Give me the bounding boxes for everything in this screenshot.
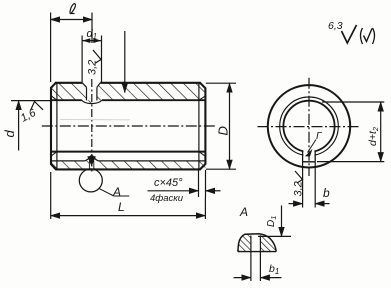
channel walls [250,236,252,282]
hatch top band [51,83,205,104]
svg-text:A: A [112,185,121,199]
keyway slot: white out [303,146,314,161]
keyway bottom line [51,160,85,162]
bore recess dome at hole (top wall) [82,100,102,103]
label l (length to hole axis) [70,4,76,14]
svg-text:b: b [323,186,330,200]
svg-text:L: L [118,200,125,214]
bore bottom line [51,151,205,153]
general roughness check marks [342,25,357,43]
slot extension lines [302,162,304,208]
svg-text:3,2: 3,2 [293,181,305,196]
svg-text:D: D [216,126,231,135]
chamfer edge line left [56,83,58,170]
inner chamfer diagonals [51,96,57,101]
body outline [51,83,205,170]
dim l [50,13,52,83]
centerlines [258,126,359,128]
long down arrow [124,31,126,93]
hole axis line [91,13,93,44]
svg-text:A: A [239,205,248,219]
faint crease [60,119,130,121]
dim L [50,172,52,219]
channel walls below dome [88,161,90,169]
top surface ext + D1 arrow [258,235,291,237]
centerline main view [42,125,216,127]
hatch bottom band [51,161,205,170]
G leader [308,140,317,153]
dome hatched [238,234,276,252]
dim D (right) [206,82,236,84]
detail circle A [79,169,102,192]
roughness 3,2 tick near d1 (rotated) [93,50,101,63]
svg-text:6,3: 6,3 [328,20,343,32]
svg-text:d: d [2,130,17,138]
keyway exit dome (bottom wall, detail A subject) [85,156,99,161]
roughness 3,2 tick at slot [295,171,303,183]
svg-text:3,2: 3,2 [87,60,99,75]
dim c x45 [198,170,200,197]
hole d1: countersink and walls [82,83,86,88]
dim b1 [234,277,251,279]
bore top line [51,99,82,101]
roughness 1,6 tick [31,102,44,111]
dim d1 [81,36,83,83]
svg-text:4фаски: 4фаски [150,193,184,204]
svg-text:c×45°: c×45° [154,177,183,189]
dim b [289,203,303,205]
chamfer edge line right [198,83,200,170]
dim d (left) [11,100,50,102]
dim d+t2 [322,101,384,103]
